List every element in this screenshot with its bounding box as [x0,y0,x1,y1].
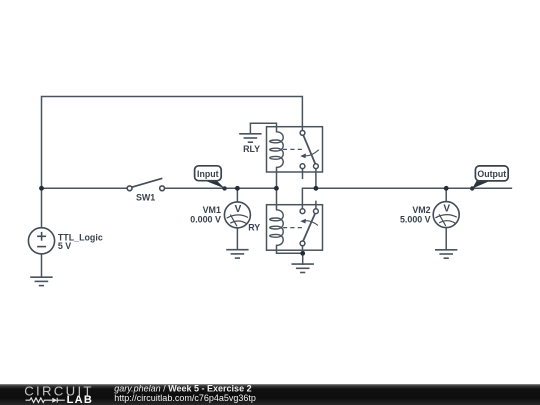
svg-text:Output: Output [477,169,506,179]
svg-text:V: V [443,204,450,215]
svg-text:LAB: LAB [67,394,94,405]
svg-text:V: V [235,204,242,215]
svg-text:5.000 V: 5.000 V [400,215,431,225]
svg-text:SW1: SW1 [136,192,155,202]
svg-text:0.000 V: 0.000 V [190,215,221,225]
svg-text:Input: Input [197,169,219,179]
svg-text:RY: RY [248,223,260,233]
svg-text:RLY: RLY [243,144,260,154]
svg-text:5 V: 5 V [58,241,71,251]
svg-text:http://circuitlab.com/c76p4a5v: http://circuitlab.com/c76p4a5vg36tp [114,392,256,402]
